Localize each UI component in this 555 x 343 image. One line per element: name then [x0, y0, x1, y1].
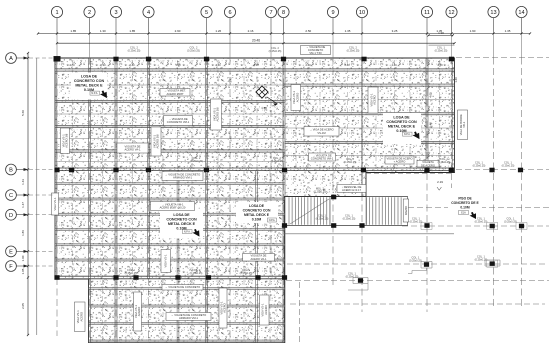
svg-text:2.16: 2.16	[248, 29, 254, 33]
joist center lines upper slab	[72, 60, 74, 170]
svg-text:METAL DECK E: METAL DECK E	[168, 222, 196, 226]
svg-text:1.47: 1.47	[21, 202, 25, 208]
vigueta box b4	[162, 172, 203, 181]
svg-text:CONCRETO VM-1: CONCRETO VM-1	[311, 157, 334, 161]
vigueta box b13	[309, 153, 336, 161]
stair run 1 break line	[290, 199, 329, 224]
desnivel box b9	[337, 185, 366, 193]
columns stair bottom row	[282, 223, 287, 228]
svg-text:(0.25x0.25): (0.25x0.25)	[473, 164, 486, 167]
vigueta box b5	[151, 202, 195, 211]
vigueta box b15 (top strip)	[301, 45, 331, 55]
columns top row	[113, 57, 118, 62]
vigueta box b6	[243, 254, 275, 262]
svg-text:1.30: 1.30	[100, 29, 106, 33]
top dimension line 1	[38, 33, 530, 35]
svg-text:+ ACERO: + ACERO	[394, 160, 406, 164]
vigueta box b2	[164, 116, 193, 126]
svg-text:CONCRETO CON: CONCRETO CON	[166, 218, 197, 222]
viga box v6	[161, 250, 171, 273]
svg-text:(0.25x0.25): (0.25x0.25)	[346, 275, 359, 278]
svg-text:ACERO H=0.17: ACERO H=0.17	[342, 188, 362, 192]
viga box v5 (right of slab)	[458, 110, 468, 140]
right edge beam	[452, 58, 454, 173]
corner column grid1/A	[54, 56, 61, 62]
svg-text:LOSA DE: LOSA DE	[249, 204, 265, 208]
svg-text:(0.25x0.25): (0.25x0.25)	[435, 49, 448, 52]
viga box v7	[75, 302, 86, 332]
vigueta box b8	[166, 313, 211, 321]
grid line B extension (right)	[456, 169, 549, 171]
lower grid line y264	[287, 263, 545, 265]
svg-text:12: 12	[448, 10, 454, 16]
svg-text:1.86: 1.86	[21, 230, 25, 236]
svg-text:5.90: 5.90	[175, 63, 181, 67]
svg-text:9: 9	[331, 10, 334, 16]
svg-text:ACERO 3/8: ACERO 3/8	[65, 133, 69, 148]
svg-text:2.40: 2.40	[437, 63, 443, 67]
svg-text:ARMADO VM-1: ARMADO VM-1	[179, 316, 198, 320]
svg-text:1.85: 1.85	[129, 29, 135, 33]
vertical beam grid 10 (upper)	[361, 58, 363, 197]
columns right area	[424, 262, 429, 267]
svg-text:1.35: 1.35	[345, 29, 351, 33]
vertical beam grid 5	[206, 58, 208, 343]
svg-text:VB-1: VB-1	[462, 121, 466, 127]
svg-text:4.20: 4.20	[391, 63, 397, 67]
svg-text:ACERO Ø3/8": ACERO Ø3/8"	[166, 92, 183, 96]
svg-text:ACERO: ACERO	[373, 95, 377, 105]
column stair top	[331, 195, 336, 200]
dashed line y207 right area	[408, 207, 549, 209]
svg-text:F: F	[9, 264, 13, 270]
svg-text:(0.25x0.25): (0.25x0.25)	[187, 49, 200, 52]
columns grid B row	[54, 168, 59, 173]
svg-text:LOSA DE: LOSA DE	[81, 75, 98, 79]
svg-text:ACERO: ACERO	[223, 303, 227, 313]
svg-text:(0.25x0.25): (0.25x0.25)	[410, 220, 423, 223]
viga box b10	[304, 127, 339, 137]
viga box v8	[134, 292, 142, 331]
svg-text:ACERO: ACERO	[79, 312, 83, 322]
svg-text:1.43: 1.43	[21, 179, 25, 185]
svg-text:CONCRETO VM-1: CONCRETO VM-1	[167, 120, 190, 124]
svg-text:METAL DECK E: METAL DECK E	[75, 84, 103, 88]
svg-text:(0.25x0.25): (0.25x0.25)	[343, 217, 356, 220]
svg-text:A: A	[9, 56, 13, 62]
svg-text:CONCRETO CON: CONCRETO CON	[74, 79, 105, 83]
svg-text:0.10M: 0.10M	[460, 206, 469, 210]
stair run 2 treads	[367, 197, 402, 224]
svg-text:VIGA VS-1: VIGA VS-1	[164, 254, 168, 267]
svg-text:1.35: 1.35	[505, 29, 511, 33]
svg-text:(0.25x0.25): (0.25x0.25)	[190, 272, 203, 275]
outline boxes cols 226 row	[421, 223, 527, 268]
svg-text:ARMADO VM-1: ARMADO VM-1	[173, 176, 192, 180]
svg-text:5: 5	[205, 10, 208, 16]
viga box v9	[219, 288, 227, 328]
svg-text:RAMPA: RAMPA	[404, 206, 408, 216]
svg-text:2.50: 2.50	[305, 29, 311, 33]
svg-text:4.05: 4.05	[429, 92, 433, 98]
column labels	[128, 47, 141, 53]
svg-text:ACERO 3/8: ACERO 3/8	[156, 134, 160, 149]
svg-text:1.90: 1.90	[438, 31, 444, 35]
svg-text:(0.25x0.25): (0.25x0.25)	[347, 49, 360, 52]
svg-text:N.P.A.: N.P.A.	[91, 92, 98, 95]
viga box v3	[211, 99, 222, 130]
vigueta box b14	[417, 160, 439, 167]
svg-text:(0.25x0.25): (0.25x0.25)	[502, 164, 515, 167]
svg-text:1.00: 1.00	[21, 255, 25, 261]
svg-text:N.P.A.: N.P.A.	[404, 133, 411, 136]
svg-text:2.40: 2.40	[305, 63, 311, 67]
vertical beam grid 4	[148, 58, 150, 279]
viga box v2	[151, 127, 161, 156]
svg-text:VM-1 T.50: VM-1 T.50	[309, 51, 322, 55]
svg-text:7: 7	[269, 10, 272, 16]
svg-text:5.48: 5.48	[429, 122, 433, 128]
svg-text:1.50: 1.50	[261, 106, 267, 110]
svg-text:1.40: 1.40	[454, 77, 458, 83]
stair run 1 treads	[289, 197, 330, 224]
losa label left block right	[236, 202, 278, 223]
left block beams	[55, 183, 285, 185]
svg-text:(0.25x0.25): (0.25x0.25)	[316, 217, 329, 220]
svg-text:LOSA DE: LOSA DE	[173, 213, 190, 217]
losa label left block	[160, 211, 203, 239]
grid line A extension (right)	[456, 57, 549, 59]
upper slab joist lines (left half) thin	[55, 84, 285, 86]
svg-text:METAL DECK E: METAL DECK E	[244, 213, 270, 217]
upper slab beams (right half) strong	[285, 84, 455, 86]
svg-text:2.40: 2.40	[215, 63, 221, 67]
svg-text:(0.25x0.25): (0.25x0.25)	[475, 220, 488, 223]
columns lower beam row	[54, 275, 59, 280]
lower main beam row	[55, 276, 285, 279]
vigueta box b7	[162, 285, 203, 291]
svg-text:B: B	[9, 168, 13, 174]
losa label middle band	[383, 113, 421, 144]
svg-text:ACERO: ACERO	[295, 93, 299, 103]
svg-text:2.90: 2.90	[175, 29, 181, 33]
svg-text:→ VIGUETA DE CONCRETO: → VIGUETA DE CONCRETO	[165, 285, 200, 289]
concrete slab hatch (metal deck areas)	[55, 58, 455, 343]
svg-text:3.25: 3.25	[392, 29, 398, 33]
viga box v4	[368, 87, 378, 113]
upper slab beams (left half) strong	[55, 100, 285, 102]
svg-text:1.40: 1.40	[229, 77, 233, 83]
svg-text:(0.25x0.25): (0.25x0.25)	[438, 161, 451, 164]
vigueta box b11	[385, 156, 414, 164]
svg-text:6: 6	[228, 10, 231, 16]
step outline near column 10	[348, 278, 368, 291]
viga box v10	[260, 295, 270, 325]
svg-text:(0.25x0.25): (0.25x0.25)	[240, 272, 253, 275]
svg-text:8: 8	[282, 10, 285, 16]
svg-text:3: 3	[114, 10, 117, 16]
svg-text:1.40: 1.40	[229, 136, 233, 142]
vertical beam mid 178 (lower)	[177, 171, 179, 343]
lower band beams	[89, 288, 285, 290]
svg-text:(0.25x0.25): (0.25x0.25)	[314, 190, 327, 193]
svg-text:METAL DECK E: METAL DECK E	[388, 125, 416, 129]
viga box v1	[61, 128, 70, 154]
svg-text:1.85: 1.85	[70, 29, 76, 33]
svg-text:ACERO: ACERO	[264, 305, 268, 315]
svg-text:1.90: 1.90	[470, 29, 476, 33]
svg-text:DE ACERO: DE ACERO	[421, 163, 435, 167]
svg-text:2.19: 2.19	[437, 180, 443, 184]
vertical beam grid 2	[89, 58, 91, 343]
vertical beam grid 11 (upper)	[426, 58, 428, 173]
lower grid line y280	[286, 280, 549, 282]
svg-text:6.20: 6.20	[344, 63, 350, 67]
svg-text:0.10M: 0.10M	[252, 218, 262, 222]
svg-text:14: 14	[518, 10, 524, 16]
svg-text:N.P.A.: N.P.A.	[184, 231, 191, 234]
stair landing edges	[329, 197, 331, 225]
svg-text:(0.25x0.25): (0.25x0.25)	[190, 160, 203, 163]
svg-text:1.26: 1.26	[215, 29, 221, 33]
svg-text:4: 4	[147, 10, 150, 16]
svg-text:13: 13	[490, 10, 496, 16]
piso de concreto text	[448, 194, 482, 211]
svg-text:N.P.A.: N.P.A.	[269, 219, 276, 222]
vertical beam grid 3	[115, 58, 117, 343]
svg-text:(0.25x0.25): (0.25x0.25)	[504, 220, 517, 223]
grid line stairs bottom extension	[402, 225, 549, 227]
svg-text:ACERO VA-1: ACERO VA-1	[124, 148, 141, 152]
losa label upper-left	[71, 73, 107, 100]
svg-text:(0.25x0.25): (0.25x0.25)	[271, 160, 284, 163]
svg-text:4.10: 4.10	[253, 63, 259, 67]
svg-text:1: 1	[55, 10, 58, 16]
step outline near column 13	[485, 260, 500, 266]
viga box v11	[52, 193, 59, 215]
vertical beam grid 8	[283, 58, 285, 343]
svg-text:(0.25x0.25): (0.25x0.25)	[125, 272, 138, 275]
svg-text:VS-1M: VS-1M	[317, 131, 326, 135]
svg-text:LOSA DE: LOSA DE	[393, 116, 410, 120]
vigueta box b3	[117, 143, 148, 153]
vertical beam mid 256 (lower)	[256, 171, 258, 343]
svg-text:CONCRETO DE E: CONCRETO DE E	[451, 201, 479, 205]
svg-text:VIGA VS-1: VIGA VS-1	[53, 197, 57, 210]
svg-text:E1A: E1A	[461, 212, 466, 215]
left edge beam grid 1	[55, 58, 57, 279]
dashed line right of stairs y173	[366, 173, 454, 175]
svg-text:ACERO: ACERO	[137, 307, 141, 317]
left vertical dimension line	[27, 53, 29, 335]
step outline near column 11	[408, 262, 432, 274]
short dashed vertical x299.5 bottom	[299, 282, 301, 343]
svg-text:E: E	[9, 250, 13, 256]
svg-text:1.05: 1.05	[21, 268, 25, 274]
dim 1.90 top right	[429, 34, 453, 36]
svg-text:(0.25x0.25): (0.25x0.25)	[344, 161, 357, 164]
top dimension line 2 (overall 20.46)	[57, 42, 455, 44]
svg-text:(0.25x0.25): (0.25x0.25)	[269, 50, 282, 53]
viga box v12	[291, 85, 301, 111]
svg-text:C: C	[9, 193, 13, 199]
stair lower edge line	[284, 233, 455, 235]
slab top edge band beam	[55, 69, 455, 71]
joist center lines left block	[72, 171, 74, 277]
svg-text:2.05: 2.05	[21, 303, 25, 309]
svg-text:CONCRETO CON: CONCRETO CON	[386, 120, 417, 124]
vigueta box b1	[160, 89, 190, 97]
upper slab joist lines (right half) thin	[285, 99, 455, 101]
vertical grid center lines	[56, 34, 58, 58]
svg-text:CONCRETO CON: CONCRETO CON	[243, 209, 271, 213]
svg-text:0.30: 0.30	[100, 63, 106, 67]
svg-text:ACERO Ø3/8" @0.20: ACERO Ø3/8" @0.20	[160, 206, 186, 210]
stair side label box	[403, 199, 409, 222]
svg-text:PISO DE: PISO DE	[458, 197, 472, 201]
stair zone outline	[285, 196, 408, 198]
svg-text:20.46: 20.46	[252, 39, 260, 43]
top grid bubbles	[51, 6, 62, 33]
svg-text:ACERO VA-1: ACERO VA-1	[250, 257, 267, 261]
svg-text:2.40: 2.40	[129, 63, 135, 67]
grid B main beam	[55, 168, 455, 171]
svg-text:2: 2	[88, 10, 91, 16]
svg-text:2.70: 2.70	[69, 63, 75, 67]
svg-text:(0.25x0.25): (0.25x0.25)	[128, 49, 141, 52]
line under top right dim	[429, 44, 455, 46]
svg-text:10: 10	[359, 10, 365, 16]
joist center lines lower band	[102, 280, 104, 342]
svg-text:(0.25x0.25): (0.25x0.25)	[409, 259, 422, 262]
svg-text:ACERO 3/8: ACERO 3/8	[216, 107, 220, 122]
svg-text:11: 11	[424, 10, 430, 16]
svg-text:D: D	[9, 213, 13, 219]
detail marker diamond	[256, 86, 268, 98]
left grid bubbles	[6, 53, 28, 64]
svg-text:5.60: 5.60	[21, 110, 25, 116]
left secondary dimension line	[36, 58, 38, 335]
lower grid line y304	[290, 303, 545, 305]
